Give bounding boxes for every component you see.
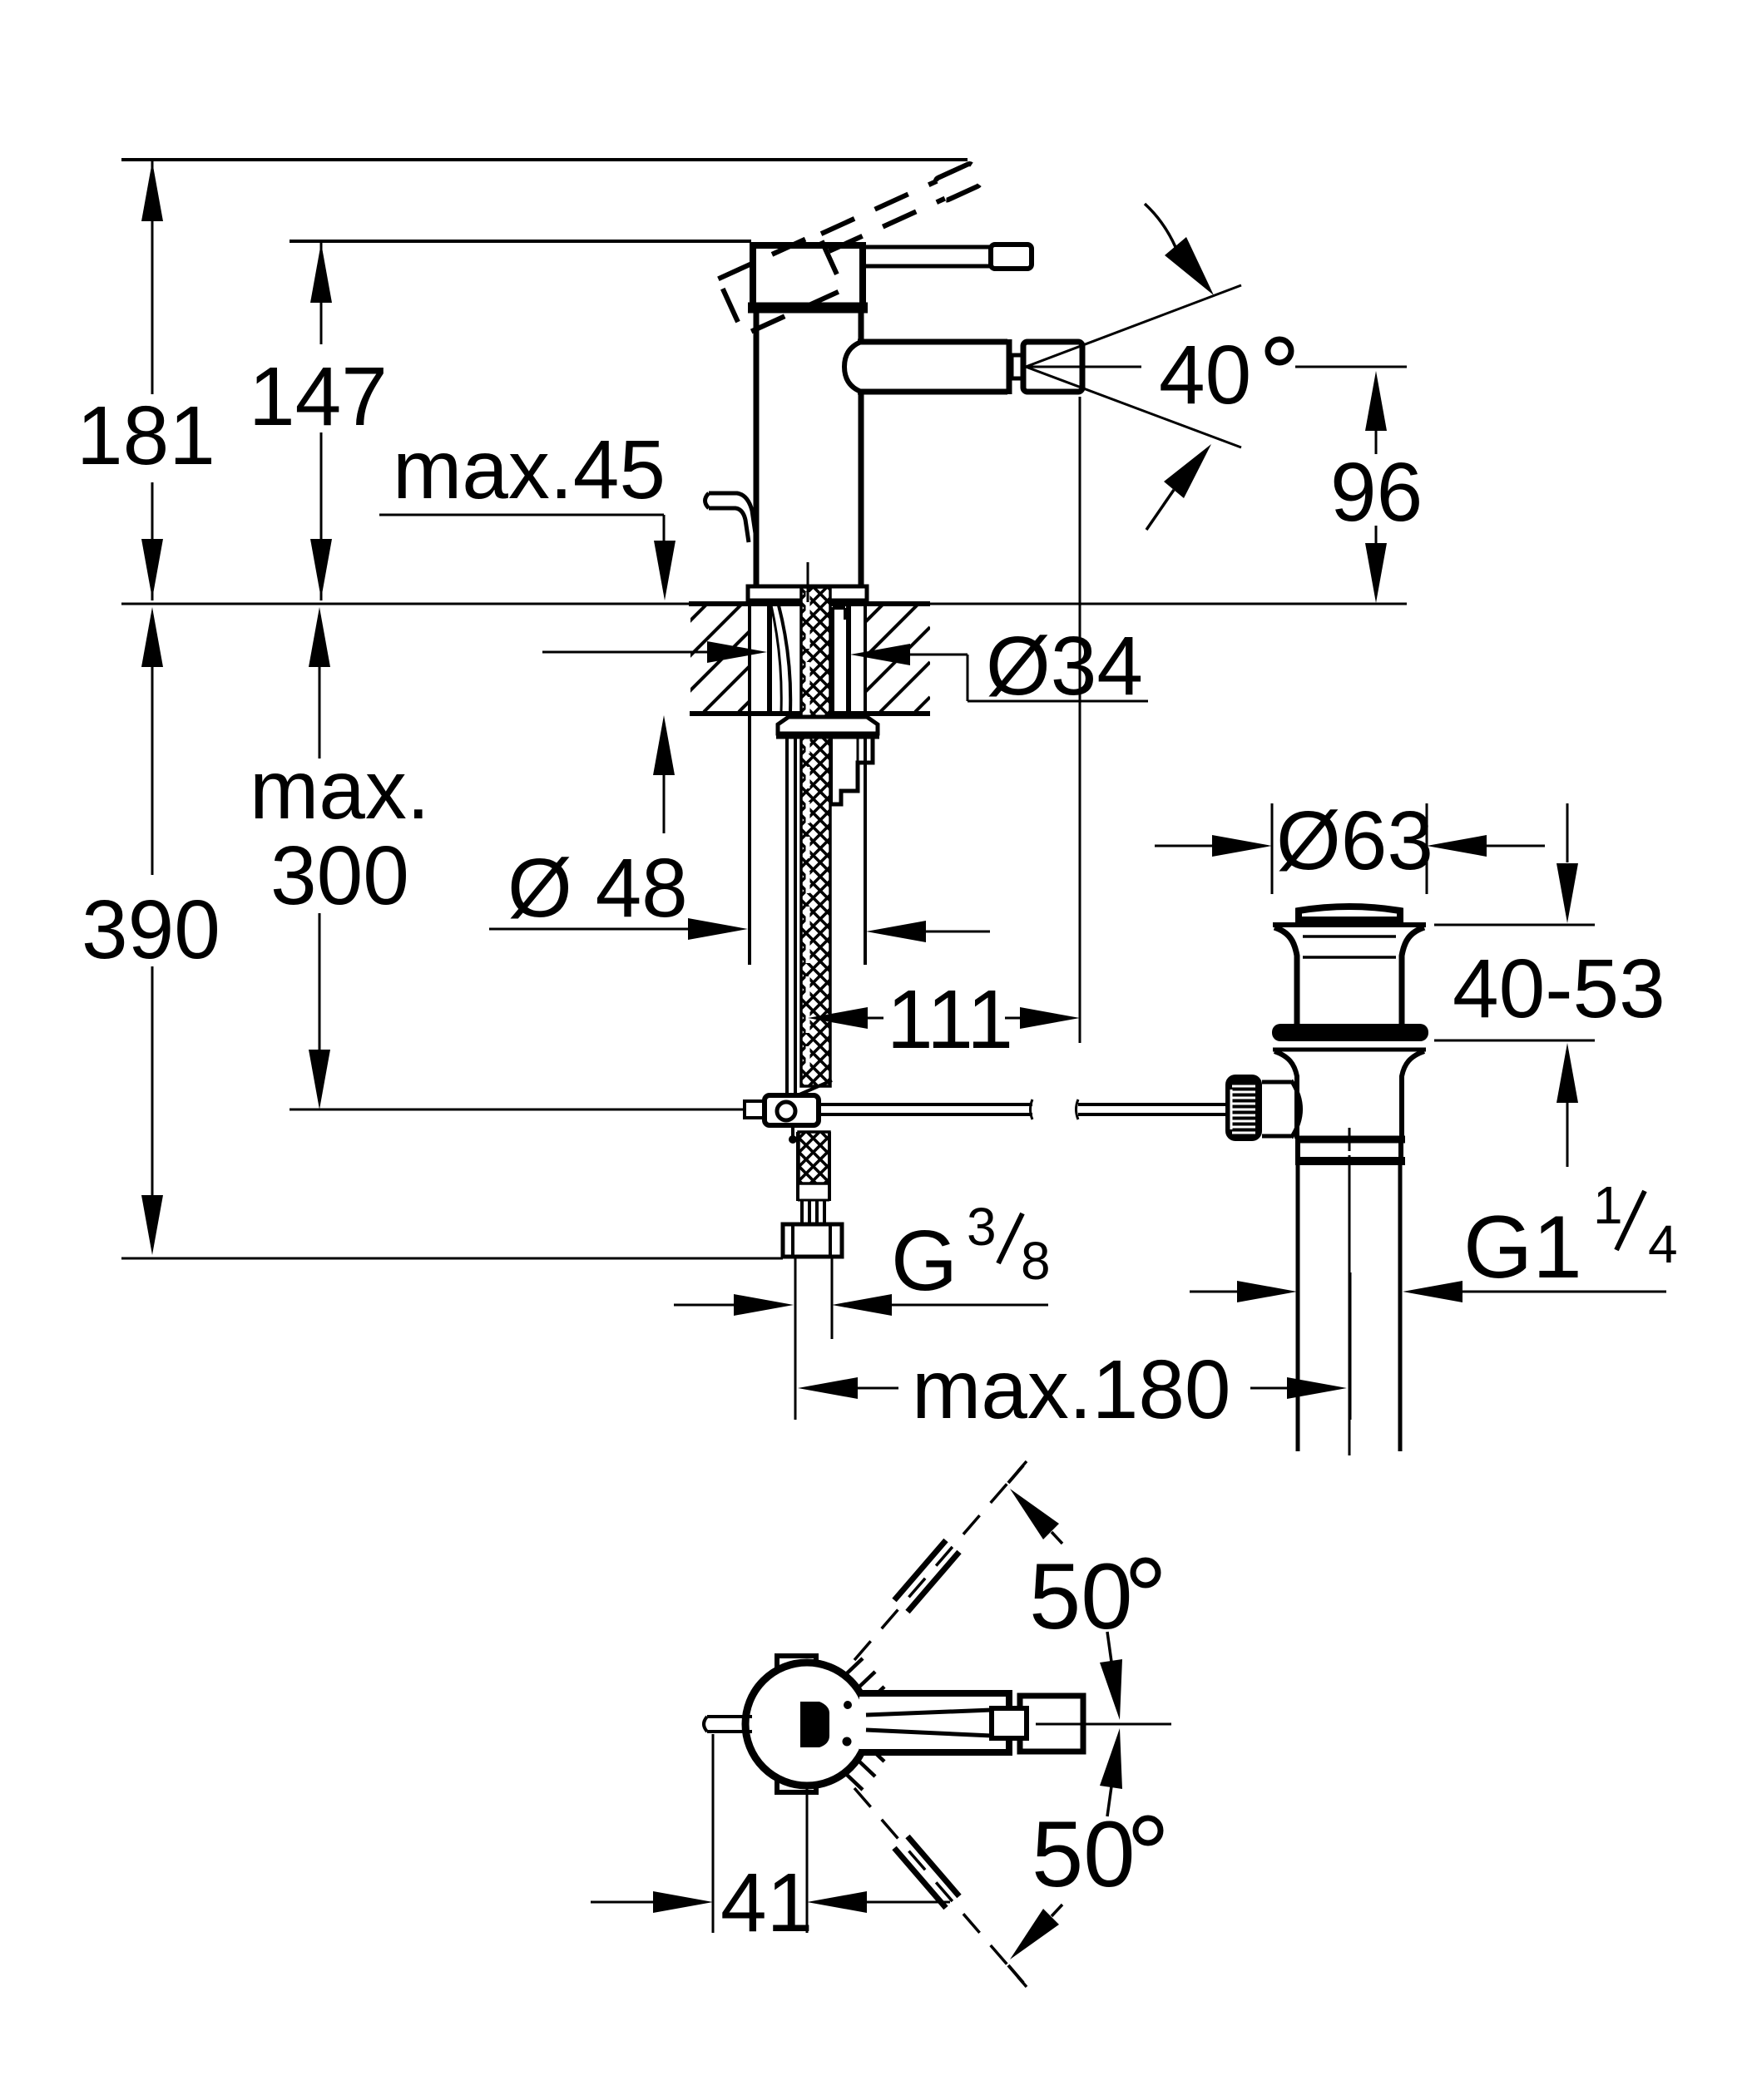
aerator <box>1023 342 1082 392</box>
top reference line (spout max height plane) <box>121 158 968 161</box>
counter cross-section hatching left <box>599 561 750 712</box>
bottom view: axis line <box>1036 1723 1171 1726</box>
drain pipe G1 1/4 <box>1298 1165 1400 1451</box>
bottom view: body circle <box>745 1663 869 1786</box>
spray cone axis line <box>1026 366 1141 368</box>
dim 181 vertical <box>77 160 215 600</box>
dim Ø34 with leader <box>542 620 1148 713</box>
bottom view: rim knurl ticks upper <box>847 1658 884 1702</box>
bottom view: dashed lever upper 50 deg <box>854 1461 1027 1660</box>
lever bar <box>865 247 992 266</box>
hose nut G3/8 <box>783 1224 842 1257</box>
drain valve rod connector <box>1262 1080 1301 1138</box>
spout <box>844 339 1009 394</box>
dim G3/8 <box>674 1197 1051 1316</box>
hose braid band (inside shank) <box>799 587 832 1094</box>
pop-up linkage left thin rod <box>290 1109 745 1111</box>
bottom view: spout neck <box>992 1708 1027 1738</box>
svg-text:181: 181 <box>77 389 215 482</box>
drain valve O-ring (black) <box>1272 1024 1428 1041</box>
bottom view: body top-view tabs <box>777 1656 816 1792</box>
bottom view: spout channel taper <box>866 1710 992 1736</box>
bottom view: aerator <box>1020 1696 1083 1752</box>
spray cone upper line <box>1026 285 1241 367</box>
angle 50 upper arrows <box>1010 1489 1122 1720</box>
drain pull rod hook at body <box>705 493 757 542</box>
svg-text:G1: G1 <box>1463 1197 1582 1297</box>
svg-text:40: 40 <box>1159 329 1251 422</box>
spray angle upper arc arrow <box>1145 204 1214 295</box>
pop-up rod holder bracket <box>831 739 873 804</box>
svg-text:Ø63: Ø63 <box>1276 794 1433 887</box>
dim 96 vertical <box>1330 371 1423 603</box>
dim max.300 vertical <box>250 607 430 1109</box>
svg-text:Ø34: Ø34 <box>986 620 1143 713</box>
dim max.180 <box>798 1272 1350 1436</box>
svg-text:147: 147 <box>249 350 388 443</box>
pop-up rod guide curves inside shank <box>779 605 790 712</box>
svg-text:41: 41 <box>720 1856 813 1949</box>
drain valve center line <box>1349 1128 1351 1455</box>
dim 147 vertical <box>249 241 388 600</box>
dim 40-53 vertical <box>1434 803 1665 1167</box>
hose ferrule ribs <box>798 1200 829 1224</box>
svg-text:8: 8 <box>1021 1231 1051 1291</box>
svg-text:4: 4 <box>1648 1214 1678 1274</box>
svg-text:G: G <box>891 1213 958 1308</box>
drain valve flange line <box>1273 922 1426 927</box>
spout-aerator connector <box>1012 355 1023 378</box>
counter bottom line <box>690 711 930 716</box>
label 50 degrees upper <box>1029 1544 1158 1648</box>
svg-text:96: 96 <box>1330 446 1423 539</box>
faucet center line <box>807 562 809 602</box>
dashed lever and block in raised position <box>718 162 997 334</box>
drain valve neck <box>1274 927 1424 1024</box>
svg-text:1: 1 <box>1593 1175 1623 1235</box>
dim G1 1/4 <box>1190 1175 1678 1302</box>
threaded shank wall right <box>846 604 851 715</box>
bottom view: lever slot (black) <box>800 1702 829 1747</box>
drain valve adjuster knob (knurled) <box>1225 1075 1262 1141</box>
label 50 degrees lower <box>1032 1802 1161 1906</box>
drain valve push cap <box>1299 907 1400 922</box>
pop-up rod clamp block <box>745 1095 819 1144</box>
dim 41 <box>591 1734 950 1949</box>
angle 50 lower arrows <box>1010 1728 1122 1959</box>
counter cross-section hatching right <box>775 557 930 712</box>
bottom view: pull rod left <box>704 1717 752 1732</box>
drain valve body bottom and collar <box>1295 1139 1405 1161</box>
svg-text:max.180: max.180 <box>912 1343 1231 1436</box>
svg-text:300: 300 <box>270 829 409 922</box>
cartridge block (lever base) <box>748 245 868 308</box>
faucet body tube <box>756 310 861 586</box>
bottom view: screw dots <box>844 1701 852 1709</box>
bottom view: dashed lever lower 50 deg <box>854 1788 1027 1987</box>
faucet base flange <box>748 586 867 600</box>
dim max.45 counter thickness <box>379 423 676 833</box>
mounting nut below counter <box>776 717 879 736</box>
flexible hose below clamp <box>798 1132 829 1201</box>
svg-text:3: 3 <box>967 1197 997 1257</box>
bottom view: rim knurl ticks lower <box>847 1747 884 1790</box>
dim Ø63 <box>1155 794 1545 887</box>
svg-text:max.: max. <box>250 744 430 837</box>
svg-text:40-53: 40-53 <box>1453 942 1665 1035</box>
svg-text:max.45: max.45 <box>393 423 666 516</box>
svg-text:Ø 48: Ø 48 <box>507 842 688 935</box>
counter hole edge / Ø48 extension line right <box>864 604 867 965</box>
bottom view: spout outline <box>859 1693 1009 1752</box>
threaded shank wall left <box>767 604 772 715</box>
counter hole edge / Ø48 extension line left <box>748 604 751 965</box>
svg-text:50: 50 <box>1029 1544 1133 1648</box>
dim 111 <box>808 397 1080 1066</box>
dim Ø48 <box>489 842 990 942</box>
label 40 degrees <box>1159 329 1407 422</box>
lever height reference line <box>290 240 751 243</box>
pop-up horizontal rod to drain valve <box>819 1099 1227 1119</box>
counter top thick segment <box>689 601 930 606</box>
drain valve lower flange <box>1273 1050 1426 1139</box>
drain valve Ø63 extension lines <box>1272 803 1427 894</box>
svg-text:390: 390 <box>82 883 220 976</box>
internal bracket in shank <box>833 607 845 714</box>
counter top surface line <box>121 603 1407 605</box>
bottom reference line (hose end plane) <box>121 1258 783 1260</box>
pop-up vertical rod <box>787 739 795 1095</box>
lever grip <box>991 245 1032 269</box>
spray cone lower line <box>1026 367 1241 447</box>
svg-text:50: 50 <box>1032 1802 1136 1906</box>
dim 390 vertical <box>82 607 220 1255</box>
hose thread extension lines <box>795 1257 832 1420</box>
spray angle lower arc arrow <box>1146 444 1211 530</box>
svg-text:111: 111 <box>887 973 1013 1066</box>
